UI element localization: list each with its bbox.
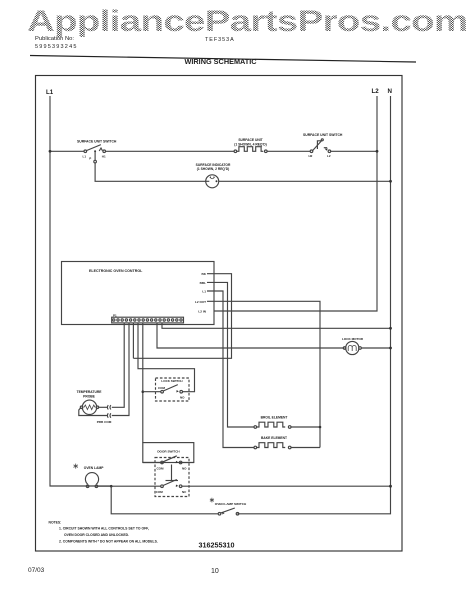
broil element xyxy=(254,422,291,428)
wire L2 bus xyxy=(214,96,377,311)
svg-text:L2 IN: L2 IN xyxy=(198,310,206,314)
watermark logo xyxy=(27,5,467,39)
door switch dashed enclosure xyxy=(155,458,189,497)
wire indicator to N bus xyxy=(219,180,391,182)
wire bake element to L2 OUT feeder xyxy=(291,447,320,449)
svg-text:P: P xyxy=(89,157,91,161)
door switch label box xyxy=(143,443,194,463)
surface unit switch SW1 xyxy=(83,145,106,161)
footer page number xyxy=(211,568,219,575)
junction broil on L2 OUT feeder xyxy=(319,426,322,429)
oven lamp DS1 xyxy=(85,473,98,488)
title underline rule xyxy=(30,56,416,63)
oven lamp asterisk xyxy=(74,464,78,469)
lock switch S2 xyxy=(143,385,185,400)
svg-text:ELECTRONIC OVEN CONTROL: ELECTRONIC OVEN CONTROL xyxy=(89,269,143,273)
door switch pole 2 xyxy=(156,480,187,495)
wire P1 pin to probe top xyxy=(112,323,124,407)
svg-text:LOCK SWITCH: LOCK SWITCH xyxy=(161,379,182,383)
wire P1 pin to lock switch COM and door switch xyxy=(142,323,144,443)
wire P1 pin to lock motor xyxy=(157,323,345,348)
svg-text:NO: NO xyxy=(180,395,185,399)
svg-text:316255310: 316255310 xyxy=(199,541,235,550)
junction on N bus xyxy=(389,180,392,183)
svg-text:SURFACE UNIT SWITCH: SURFACE UNIT SWITCH xyxy=(303,133,343,137)
svg-text:OVEN LAMP: OVEN LAMP xyxy=(84,466,104,470)
svg-text:(1 SHOWN, 4 REQ'D): (1 SHOWN, 4 REQ'D) xyxy=(234,142,266,146)
svg-text:L1: L1 xyxy=(83,154,87,158)
surface unit switch SW2 xyxy=(309,139,331,158)
wire BBL to broil element xyxy=(207,282,254,427)
wire SW1 P terminal drop xyxy=(94,151,96,160)
junction on N bus xyxy=(389,485,392,488)
wire SW1 H1 to surface unit xyxy=(106,150,235,152)
oven lamp switch S3 xyxy=(218,508,239,515)
svg-text:NC: NC xyxy=(182,490,187,494)
electronic oven control U1 box xyxy=(62,262,215,325)
wire door switch NC to N bus xyxy=(182,485,391,487)
bake element xyxy=(254,443,291,449)
svg-text:OVEN LAMP SWITCH: OVEN LAMP SWITCH xyxy=(215,502,247,506)
svg-text:COM: COM xyxy=(156,490,164,494)
svg-text:(1 SHOWN, 2 REQ'D): (1 SHOWN, 2 REQ'D) xyxy=(197,167,229,171)
footer date xyxy=(28,567,44,574)
connector pair probe top xyxy=(107,405,111,409)
lock motor M1 xyxy=(343,341,361,354)
svg-text:1. CIRCUIT SHOWN WITH ALL CON: 1. CIRCUIT SHOWN WITH ALL CONTROLS SET T… xyxy=(59,527,149,531)
svg-text:NO: NO xyxy=(182,466,187,470)
svg-text:COM: COM xyxy=(158,386,166,390)
junction on L2 bus xyxy=(376,150,379,153)
junction lock COM feed xyxy=(142,390,145,393)
svg-text:L1: L1 xyxy=(46,89,54,96)
connector P1 strip xyxy=(112,317,184,323)
svg-text:BAKE ELEMENT: BAKE ELEMENT xyxy=(261,436,287,440)
surface unit heating element xyxy=(234,147,267,153)
svg-text:PROBE: PROBE xyxy=(83,395,96,399)
svg-text:DOOR SWITCH: DOOR SWITCH xyxy=(157,450,180,454)
wire lamp to door switch COM xyxy=(98,485,161,487)
svg-text:SURFACE UNIT SWITCH: SURFACE UNIT SWITCH xyxy=(77,140,117,144)
surface indicator lamp xyxy=(206,175,219,188)
lock switch dashed enclosure xyxy=(156,378,190,401)
wire surface unit to SW2 xyxy=(267,150,310,152)
svg-text:PRB COM: PRB COM xyxy=(97,420,112,424)
wire P1 pin to lock switch NO xyxy=(138,323,195,392)
svg-text:BK: BK xyxy=(202,272,207,276)
svg-text:2. COMPONENTS WITH * DO NOT: 2. COMPONENTS WITH * DO NOT APPEAR ON AL… xyxy=(59,540,158,544)
temperature probe RT1 xyxy=(80,400,98,414)
wire P1 pin to N bus xyxy=(162,323,391,328)
svg-text:BBL: BBL xyxy=(200,281,206,285)
junction on N bus xyxy=(389,327,392,330)
door switch pole 1 xyxy=(143,456,194,471)
wire probe return loop xyxy=(79,408,107,416)
svg-text:H2: H2 xyxy=(309,154,313,158)
wire lamp node to lamp switch xyxy=(111,486,218,514)
model number xyxy=(205,37,235,43)
junction oven lamp node xyxy=(110,485,113,488)
wire SW2 to L2 bus xyxy=(331,150,377,152)
wire BK to bake return xyxy=(133,274,231,359)
connector pair probe return xyxy=(107,413,111,417)
svg-text:OVEN DOOR CLOSED AND UNLOCKED.: OVEN DOOR CLOSED AND UNLOCKED. xyxy=(64,533,129,537)
svg-text:N: N xyxy=(388,88,393,95)
svg-text:L2: L2 xyxy=(327,154,331,158)
door switch mechanical link xyxy=(166,465,179,481)
wire P1 pin to BK return xyxy=(132,323,134,358)
svg-text:L1: L1 xyxy=(202,290,206,294)
svg-text:LOCK MOTOR: LOCK MOTOR xyxy=(342,337,364,341)
title WIRING SCHEMATIC xyxy=(185,57,257,66)
svg-text:NOTES:: NOTES: xyxy=(49,521,62,525)
svg-text:L2: L2 xyxy=(372,88,380,95)
terminal P circle xyxy=(94,160,97,163)
junction on L1 bus xyxy=(49,150,52,153)
wire L1 pin to bake element xyxy=(207,291,254,448)
schematic border frame xyxy=(36,76,403,552)
junction on N bus xyxy=(389,347,392,350)
wire probe top to connector xyxy=(99,406,108,408)
svg-text:BROIL ELEMENT: BROIL ELEMENT xyxy=(261,415,288,419)
wire L1 bus xyxy=(50,96,111,486)
wire broil element to L2 OUT feeder xyxy=(291,426,320,428)
wire N bus xyxy=(238,96,391,514)
publication number block xyxy=(35,36,74,42)
svg-text:L2 OUT: L2 OUT xyxy=(195,300,206,304)
wire L1 to surface unit switch xyxy=(50,150,84,152)
svg-text:H1: H1 xyxy=(102,154,106,158)
svg-text:COM: COM xyxy=(157,466,165,470)
oven lamp switch asterisk xyxy=(210,498,214,503)
wire P1 pin to probe return xyxy=(112,323,129,416)
wire P to indicator row xyxy=(95,163,206,181)
wire lock motor to N bus xyxy=(361,347,390,349)
wire L2 OUT feeder xyxy=(207,301,320,447)
